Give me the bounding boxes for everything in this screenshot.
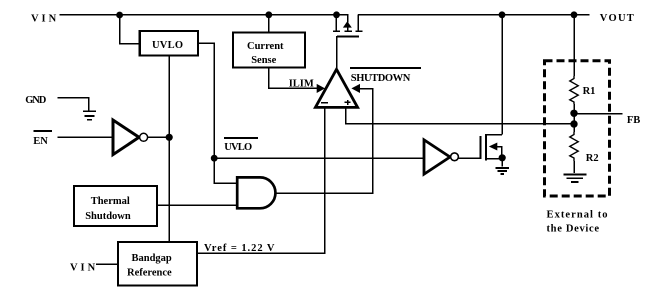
svg-text:V O U T: V O U T [600,13,634,24]
svg-text:GND: GND [25,95,47,106]
svg-text:V I N: V I N [31,14,57,25]
svg-text:UVLO: UVLO [224,142,252,153]
svg-text:Sense: Sense [251,55,276,66]
svg-text:the Device: the Device [547,224,600,235]
svg-text:EN: EN [33,136,48,147]
svg-text:Thermal: Thermal [91,196,130,207]
svg-text:External to: External to [547,210,608,221]
svg-text:SHUTDOWN: SHUTDOWN [351,73,411,84]
svg-text:FB: FB [627,115,640,126]
svg-text:Shutdown: Shutdown [85,211,131,222]
svg-text:Current: Current [247,41,284,52]
svg-text:Vref = 1.22 V: Vref = 1.22 V [204,243,275,254]
svg-text:V I N: V I N [70,262,96,273]
svg-text:UVLO: UVLO [152,40,183,51]
svg-text:R1: R1 [583,86,596,97]
svg-text:ILIM: ILIM [289,79,314,90]
svg-text:R2: R2 [586,153,599,164]
svg-text:Reference: Reference [127,267,172,278]
svg-text:Bandgap: Bandgap [132,253,172,264]
